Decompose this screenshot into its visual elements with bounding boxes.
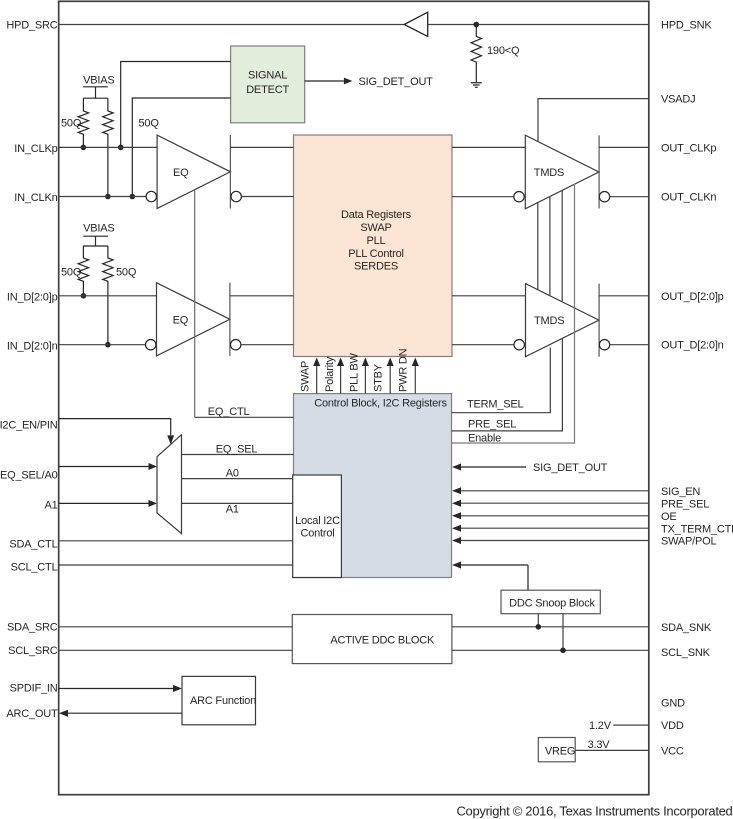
arrow SWAP/POL	[461, 540, 649, 542]
svg-text:SIG_EN: SIG_EN	[661, 486, 700, 498]
wire snoop tap SDA	[537, 614, 539, 627]
DDC snoop block	[501, 590, 600, 614]
wire reg to TMDS2 n	[452, 344, 514, 346]
VREG block	[538, 738, 575, 762]
svg-text:EQ: EQ	[173, 167, 189, 179]
svg-text:EQ: EQ	[173, 315, 189, 327]
svg-text:OUT_D[2:0]n: OUT_D[2:0]n	[661, 340, 724, 352]
signal detect block	[231, 46, 305, 123]
svg-text:TMDS: TMDS	[534, 315, 564, 327]
node R4 to IN_Dn	[105, 342, 111, 348]
svg-text:I2C_EN/PIN: I2C_EN/PIN	[0, 420, 58, 432]
wire OUT_CLKn	[610, 196, 649, 198]
wire reg to TMDS1 p	[452, 146, 525, 148]
op-amp TMDS1	[525, 135, 599, 209]
svg-text:50Q: 50Q	[116, 267, 137, 279]
svg-text:VREG: VREG	[545, 746, 575, 758]
arrow SIG_DET_OUT from signal detect	[305, 80, 344, 82]
wire EQ2 output bar	[229, 283, 231, 356]
svg-text:OUT_CLKp: OUT_CLKp	[661, 142, 716, 154]
svg-text:SWAP/POL: SWAP/POL	[661, 536, 717, 548]
svg-text:50Q: 50Q	[61, 267, 82, 279]
node EQ1 input bubble	[146, 191, 156, 201]
active DDC block	[292, 615, 452, 664]
wire DDC snoop up	[527, 565, 529, 590]
wire A0	[182, 478, 293, 480]
svg-text:50Q: 50Q	[61, 118, 82, 130]
wire PWR DN	[414, 366, 416, 394]
svg-text:3.3V: 3.3V	[588, 739, 611, 751]
svg-text:HPD_SRC: HPD_SRC	[6, 19, 57, 31]
wire I2C_EN/PIN	[59, 419, 171, 436]
local I2C control block	[293, 475, 342, 578]
wire Enable to TMDS drivers	[452, 184, 575, 444]
op-amp EQ1	[157, 135, 230, 208]
svg-text:A1: A1	[226, 504, 239, 516]
data registers block	[294, 135, 453, 357]
svg-text:PLL: PLL	[367, 235, 386, 247]
svg-text:IN_CLKp: IN_CLKp	[14, 143, 57, 155]
wire IN_Dp	[59, 295, 157, 297]
ARC function block	[182, 676, 256, 724]
wire HPD_SRC	[59, 24, 405, 26]
arrow PRE_SEL pin	[461, 502, 649, 504]
svg-text:VCC: VCC	[661, 746, 684, 758]
resistor R3 50Q	[78, 246, 88, 296]
wire OUT_Dn	[610, 344, 649, 346]
wire EQ2 out p	[230, 295, 294, 297]
svg-text:EQ_SEL/A0: EQ_SEL/A0	[0, 470, 58, 482]
arrow SIG_EN	[461, 490, 649, 492]
svg-text:HPD_SNK: HPD_SNK	[661, 20, 712, 32]
node VBIAS terminal 1	[83, 87, 108, 98]
svg-text:TERM_SEL: TERM_SEL	[467, 399, 524, 411]
node TMDS1 output bubble	[599, 192, 609, 202]
node VBIAS terminal 2	[83, 236, 108, 246]
op-amp EQ2	[157, 283, 230, 356]
wire EQ2 out n	[241, 344, 294, 346]
svg-text:Control Block, I2C Registers: Control Block, I2C Registers	[314, 397, 447, 409]
arrow TX_TERM_CTL	[461, 527, 649, 529]
wire HPD_SNK	[428, 24, 649, 26]
wire VCC 3.3V	[575, 749, 649, 751]
wire A1 input arrow	[59, 502, 149, 504]
svg-text:OUT_D[2:0]p: OUT_D[2:0]p	[661, 291, 724, 303]
resistor R2 50Q	[103, 98, 113, 196]
ground	[471, 83, 482, 88]
wire IN_CLKn	[59, 196, 147, 198]
wire EQ_CTL horizontal	[195, 416, 294, 418]
wire IN_Dn	[59, 344, 146, 346]
svg-text:ACTIVE DDC BLOCK: ACTIVE DDC BLOCK	[330, 634, 435, 646]
svg-text:SIG_DET_OUT: SIG_DET_OUT	[533, 462, 608, 474]
wire signal detect tap B	[132, 98, 230, 197]
svg-text:PRE_SEL: PRE_SEL	[468, 419, 516, 431]
wire IN_CLKp	[59, 146, 158, 148]
svg-text:IN_D[2:0]p: IN_D[2:0]p	[7, 292, 58, 304]
wire PRE_SEL	[452, 338, 563, 431]
op-amp TMDS2	[526, 284, 599, 357]
PIN LABELS LEFT	[0, 19, 58, 720]
svg-text:190<Q: 190<Q	[487, 45, 520, 57]
svg-text:OE: OE	[661, 511, 677, 523]
svg-text:A1: A1	[44, 499, 57, 511]
node TMDS1 input bubble	[514, 192, 524, 202]
node R3 to IN_Dp	[81, 293, 87, 299]
wire snoop tap SCL	[562, 614, 564, 651]
wire reg to TMDS1 n	[452, 196, 514, 198]
resistor R4 50Q	[103, 246, 113, 345]
svg-text:SIG_DET_OUT: SIG_DET_OUT	[359, 76, 434, 88]
wire TERM_SEL	[452, 348, 551, 413]
svg-text:IN_CLKn: IN_CLKn	[14, 192, 57, 204]
svg-text:Copyright © 2016, Texas Instru: Copyright © 2016, Texas Instruments Inco…	[456, 804, 732, 819]
wire EQ1 out n	[241, 196, 293, 198]
control block I2C registers	[294, 394, 452, 578]
svg-text:SERDES: SERDES	[354, 260, 398, 272]
svg-text:VSADJ: VSADJ	[661, 94, 695, 106]
node EQ2 input bubble	[146, 340, 156, 350]
wire EQ_SEL	[182, 454, 294, 456]
resistor R1 50Q	[78, 98, 88, 147]
svg-text:DDC Snoop Block: DDC Snoop Block	[509, 598, 595, 610]
svg-text:OUT_CLKn: OUT_CLKn	[661, 192, 716, 204]
address mux U2	[157, 435, 182, 534]
arrow SIG_DET_OUT into control	[461, 466, 526, 468]
wire TMDS2 output bar	[598, 284, 600, 357]
node TMDS2 input bubble	[514, 340, 524, 350]
svg-text:STBY: STBY	[373, 363, 385, 392]
wire VDD 1.2V	[613, 724, 649, 726]
svg-text:VBIAS: VBIAS	[83, 74, 114, 86]
svg-text:SDA_SNK: SDA_SNK	[661, 622, 712, 634]
PIN LABELS RIGHT	[661, 20, 733, 758]
node HPD junction	[474, 22, 480, 28]
wire OUT_CLKp	[599, 146, 649, 148]
svg-text:SDA_CTL: SDA_CTL	[9, 539, 57, 551]
node R2 to IN_CLKn	[105, 194, 111, 200]
svg-text:GND: GND	[661, 698, 685, 710]
wire STBY	[389, 366, 391, 394]
node TMDS2 output bubble	[599, 340, 609, 350]
buffer U3 HPD	[404, 12, 428, 36]
wire reg to TMDS2 p	[452, 295, 526, 297]
svg-text:TX_TERM_CTL: TX_TERM_CTL	[661, 523, 733, 535]
svg-text:Local I2C: Local I2C	[295, 515, 340, 527]
svg-text:A0: A0	[226, 468, 239, 480]
node EQ1 output bubble	[231, 191, 241, 201]
svg-text:PLL Control: PLL Control	[348, 248, 403, 260]
wire OUT_Dp	[599, 295, 649, 297]
resistor R5 190<Q	[471, 25, 481, 83]
wire EQ_CTL vertical	[194, 190, 196, 417]
svg-text:IN_D[2:0]n: IN_D[2:0]n	[7, 340, 58, 352]
wire SCL_SNK	[452, 649, 649, 651]
svg-text:EQ_SEL: EQ_SEL	[216, 443, 258, 455]
svg-text:ARC_OUT: ARC_OUT	[6, 708, 58, 720]
svg-text:TMDS: TMDS	[534, 167, 564, 179]
svg-text:50Q: 50Q	[139, 118, 160, 130]
wire EQ_SEL/A0 input arrow	[59, 466, 149, 468]
wire A1	[182, 502, 293, 504]
wire Polarity	[340, 366, 342, 394]
wire EQ1 out p	[230, 146, 293, 148]
svg-text:1.2V: 1.2V	[589, 720, 612, 732]
svg-text:PWR DN: PWR DN	[398, 348, 410, 392]
wire SCL_SRC	[59, 649, 293, 651]
arrow DDC snoop to control	[461, 564, 528, 566]
svg-text:SIGNAL: SIGNAL	[248, 69, 287, 81]
svg-text:SWAP: SWAP	[300, 361, 312, 392]
svg-text:VBIAS: VBIAS	[83, 223, 114, 235]
svg-text:SCL_SRC: SCL_SRC	[8, 645, 58, 657]
svg-text:VDD: VDD	[661, 720, 684, 732]
svg-text:Control: Control	[300, 527, 334, 539]
svg-text:SWAP: SWAP	[360, 222, 391, 234]
wire PRE_SEL link TMDS1 to TMDS2	[561, 190, 563, 301]
wire SDA_SNK	[452, 626, 649, 628]
wire TMDS1 output bar	[598, 135, 600, 208]
node R1 to IN_CLKp	[81, 145, 87, 151]
wire EQ1 output bar	[229, 135, 231, 208]
svg-text:SPDIF_IN: SPDIF_IN	[10, 682, 58, 694]
svg-text:SCL_CTL: SCL_CTL	[11, 562, 58, 574]
arrow ARC_OUT	[68, 712, 182, 714]
svg-text:DETECT: DETECT	[246, 84, 289, 96]
wire VSADJ	[538, 99, 649, 142]
wire signal detect tap A	[121, 62, 231, 148]
wire PLL BW	[364, 366, 366, 394]
svg-text:PLL BW: PLL BW	[349, 352, 361, 392]
wire TERM_SEL link TMDS1 to TMDS2	[549, 196, 551, 295]
svg-text:ARC Function: ARC Function	[190, 695, 256, 707]
svg-text:Enable: Enable	[468, 432, 501, 444]
wire SCL_CTL	[59, 564, 293, 566]
wire VSADJ link TMDS1 to TMDS2	[537, 202, 539, 289]
arrow OE	[461, 515, 649, 517]
node EQ2 output bubble	[231, 340, 241, 350]
arrow SPDIF_IN	[59, 688, 174, 690]
wire SDA_SRC	[59, 626, 293, 628]
svg-text:SDA_SRC: SDA_SRC	[7, 622, 58, 634]
chip boundary	[59, 1, 649, 794]
svg-text:Polarity: Polarity	[324, 356, 336, 392]
svg-text:Data Registers: Data Registers	[341, 209, 412, 221]
svg-text:SCL_SNK: SCL_SNK	[661, 647, 711, 659]
svg-text:PRE_SEL: PRE_SEL	[661, 498, 709, 510]
wire SDA_CTL	[59, 540, 293, 542]
svg-text:EQ_CTL: EQ_CTL	[208, 406, 250, 418]
wire SWAP	[316, 366, 318, 394]
